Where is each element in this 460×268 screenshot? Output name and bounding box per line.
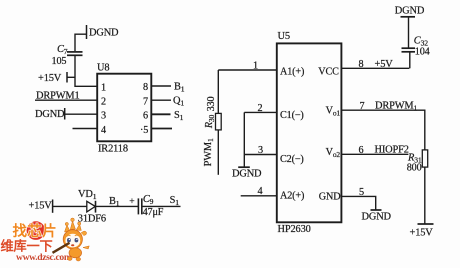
svg-text:A2(+): A2(+): [280, 191, 304, 202]
svg-text:+15V: +15V: [38, 73, 62, 84]
wire U5 pin4 stub: [241, 195, 277, 197]
resistor R30 330: [204, 70, 221, 175]
svg-text:1: 1: [101, 83, 106, 94]
svg-text:DGND: DGND: [362, 212, 392, 223]
svg-text:+15V: +15V: [410, 228, 434, 239]
svg-text:GND: GND: [319, 192, 341, 203]
node +15V (top-left): [38, 72, 75, 84]
ground DGND (top-right): [395, 5, 425, 16]
svg-text:DGND: DGND: [232, 169, 262, 180]
svg-text:+5V: +5V: [375, 59, 394, 70]
wire bracket C1-C2 to ground: [243, 112, 245, 167]
wire diode to C9: [96, 205, 139, 207]
svg-text:找芯片: 找芯片: [13, 222, 57, 240]
svg-text:1: 1: [253, 61, 258, 72]
node +15V (bottom-right): [410, 224, 434, 239]
wire U8 pin3: [65, 113, 98, 115]
watermark logo dzsc: [1, 218, 90, 263]
ground DGND (U5 pin5): [362, 210, 392, 223]
capacitor C32 value 104: [402, 17, 430, 69]
svg-text:HIOPF2: HIOPF2: [375, 145, 409, 156]
mascot: [53, 218, 90, 261]
op-amp U8 IR2118: [97, 62, 151, 154]
svg-text:·5: ·5: [140, 125, 148, 136]
svg-text:U5: U5: [278, 31, 290, 42]
ground DGND (C1/C2): [232, 167, 262, 179]
svg-text:104: 104: [415, 46, 430, 57]
svg-text:6: 6: [143, 111, 148, 122]
node DGND (U8 pin3): [35, 108, 65, 120]
svg-text:330: 330: [206, 97, 217, 112]
svg-text:DGND: DGND: [89, 28, 119, 39]
svg-text:DGND: DGND: [395, 5, 425, 16]
svg-text:31DF6: 31DF6: [78, 213, 106, 224]
ground DGND (top-left terminal): [87, 25, 120, 39]
svg-text:DRPWM1: DRPWM1: [375, 101, 418, 113]
svg-text:IR2118: IR2118: [98, 144, 128, 155]
wire C9 to S1: [142, 205, 181, 207]
node +15V (bootstrap row): [29, 200, 53, 213]
svg-text:8: 8: [143, 82, 148, 93]
wire U8 pin8: [151, 85, 171, 87]
wire U8 pin5: [151, 128, 172, 130]
capacitor C9 47uF: [129, 194, 163, 218]
svg-text:C2(−): C2(−): [280, 154, 304, 165]
wire U8 pin7: [151, 99, 171, 101]
svg-text:C1(−): C1(−): [280, 110, 304, 121]
svg-text:800: 800: [407, 162, 422, 173]
svg-text:7: 7: [143, 96, 148, 107]
wire DGND to C7: [75, 34, 87, 51]
wire to diode: [53, 205, 87, 207]
diode VD1 31DF6: [78, 189, 106, 224]
svg-text:3: 3: [101, 111, 106, 122]
capacitor C7 value 105: [52, 44, 83, 67]
wire C7 to pin1 corner: [75, 55, 97, 86]
wire U5 pin8 VCC: [341, 67, 409, 69]
svg-text:PWM1: PWM1: [203, 138, 215, 166]
svg-text:www.dzsc.com: www.dzsc.com: [16, 252, 72, 263]
svg-text:105: 105: [52, 56, 67, 67]
wire U8 pin6: [151, 113, 170, 115]
svg-text:A1(+): A1(+): [280, 66, 304, 77]
wire U5 pin2: [244, 111, 276, 113]
svg-text:U8: U8: [97, 62, 109, 73]
op-amp U5 HP2630: [277, 31, 342, 235]
wire U5 pin7 Vo1 down to R31: [341, 110, 424, 150]
svg-text:DGND: DGND: [35, 109, 65, 120]
svg-text:VCC: VCC: [318, 66, 339, 77]
wire R30 to U5 pin1: [218, 69, 276, 71]
wire U5 pin6 Vo2: [341, 153, 408, 155]
svg-text:47μF: 47μF: [143, 207, 164, 218]
svg-text:2: 2: [101, 97, 106, 108]
resistor R31 800: [407, 150, 428, 224]
wire U5 pin3: [244, 154, 276, 156]
wire U5 pin5 GND: [341, 196, 375, 210]
svg-text:HP2630: HP2630: [278, 224, 311, 235]
svg-text:+15V: +15V: [29, 201, 53, 212]
wire U8 pin2: [35, 99, 97, 101]
svg-text:4: 4: [101, 125, 106, 136]
wire U8 pin4 stub: [73, 128, 98, 130]
svg-text:+: +: [129, 196, 134, 207]
